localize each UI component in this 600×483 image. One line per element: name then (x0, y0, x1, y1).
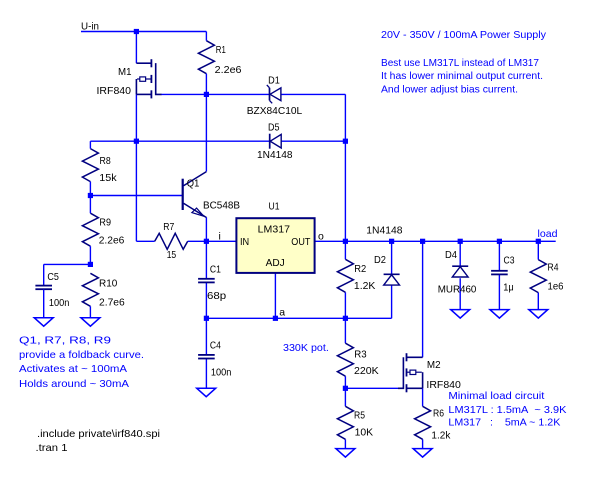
node R1 bottom / gate (204, 92, 209, 97)
wire R8 top horizontal (90, 140, 136, 142)
wire C1 top lead (205, 241, 207, 278)
wire D5 row right part (281, 140, 345, 142)
wire a row (206, 317, 391, 319)
wire R3 top lead (344, 318, 346, 343)
wire R8 top lead (89, 141, 91, 148)
svg-text:1.2k: 1.2k (431, 429, 451, 441)
svg-text:C5: C5 (47, 271, 59, 283)
svg-text:U1: U1 (269, 200, 280, 212)
svg-text:15k: 15k (99, 172, 117, 184)
wire D4 leads (459, 241, 461, 266)
wire C5 down (43, 264, 45, 285)
svg-text:Best use LM317L instead of LM3: Best use LM317L instead of LM317 (381, 57, 539, 69)
svg-text:.tran 1: .tran 1 (36, 442, 68, 454)
resistor R2 (337, 259, 353, 292)
transistor Q1 (182, 179, 184, 210)
diode D2 (384, 273, 400, 275)
ground C4 (197, 388, 216, 397)
wire R9 top lead (89, 196, 91, 214)
wire Q1 base row (90, 195, 182, 197)
svg-text:LM317: LM317 (258, 223, 290, 235)
svg-text:D5: D5 (268, 121, 280, 133)
capacitor C5 (35, 285, 52, 287)
wire C5 bottom lead (43, 290, 45, 318)
capacitor C3 (491, 270, 508, 272)
wire R5 top lead (344, 388, 346, 406)
svg-text:LM317L : 1.5mA ~ 3.9K: LM317L : 1.5mA ~ 3.9K (448, 404, 566, 416)
node M1 source / D5 / R8 (134, 139, 139, 144)
svg-text:IRF840: IRF840 (97, 85, 132, 97)
svg-text:.include private\irf840.spi: .include private\irf840.spi (37, 428, 160, 440)
node R8 R9 base junction (88, 193, 93, 198)
wire C3 leads (498, 241, 500, 270)
ground R6 (413, 449, 432, 458)
wire R1 top lead (205, 32, 207, 41)
svg-text:Q1: Q1 (187, 178, 200, 190)
svg-text:C4: C4 (210, 339, 221, 351)
svg-text:U-in: U-in (81, 20, 99, 32)
svg-text:100n: 100n (49, 297, 70, 309)
svg-text:1.2K: 1.2K (354, 280, 376, 292)
wire D2 bottom lead (391, 285, 393, 318)
resistor R9 (82, 213, 98, 246)
svg-text:Minimal load circuit: Minimal load circuit (448, 390, 544, 402)
svg-text:1μ: 1μ (503, 282, 514, 294)
svg-text:OUT: OUT (291, 236, 311, 248)
op-amp U1 LM317 regulator block (236, 218, 314, 273)
svg-text:220K: 220K (354, 365, 379, 377)
diode D4 (452, 265, 468, 267)
wire D1 to vertical (281, 93, 345, 95)
wire M2 source to R6 (422, 388, 424, 406)
svg-text:D2: D2 (374, 254, 386, 266)
node out-vertical junction (343, 239, 348, 244)
svg-text:LM317 : 5mA ~ 1.2K: LM317 : 5mA ~ 1.2K (448, 417, 560, 429)
wire R5 bottom lead (344, 439, 346, 448)
svg-text:Holds around ~ 30mA: Holds around ~ 30mA (19, 378, 129, 390)
wire R1 bottom lead (205, 74, 207, 95)
svg-text:R4: R4 (548, 262, 559, 274)
node R9 R10 C5 junction (88, 262, 93, 267)
mosfet M1 (136, 62, 150, 64)
node U-in junction (134, 29, 139, 34)
wire U-in top rail (81, 31, 206, 33)
svg-text:MUR460: MUR460 (438, 284, 477, 296)
svg-text:330K pot.: 330K pot. (283, 342, 329, 354)
svg-text:provide a foldback curve.: provide a foldback curve. (19, 349, 144, 361)
svg-text:C3: C3 (504, 254, 515, 266)
node R4 junction (536, 239, 541, 244)
svg-text:load: load (538, 228, 558, 240)
svg-text:R6: R6 (433, 407, 444, 419)
svg-text:R10: R10 (99, 278, 117, 290)
wire R8 bottom lead (89, 182, 91, 196)
wire C1 bottom lead (205, 282, 207, 318)
wire R9 bottom lead (89, 246, 91, 264)
node D2 junction (389, 239, 394, 244)
wire OUT row (315, 240, 556, 242)
node M2 drain junction (420, 239, 425, 244)
ground C3 (490, 310, 509, 319)
wire Q1 collector vertical (205, 94, 207, 171)
ground C5 (34, 318, 53, 327)
svg-text:And lower adjust bias current.: And lower adjust bias current. (381, 83, 518, 95)
svg-text:IN: IN (240, 236, 249, 248)
svg-text:Activates at ~ 100mA: Activates at ~ 100mA (19, 363, 127, 375)
svg-text:It has lower minimal output cu: It has lower minimal output current. (381, 70, 543, 82)
resistor R1 (198, 41, 214, 74)
resistor R5 (337, 406, 353, 439)
svg-text:R9: R9 (99, 217, 111, 229)
wire R10 bottom lead (89, 306, 91, 317)
node C1 C4 junction (204, 316, 209, 321)
svg-text:15: 15 (167, 249, 177, 261)
wire R7 to i node (188, 240, 237, 242)
svg-text:BZX84C10L: BZX84C10L (247, 105, 303, 117)
wire gate row to D1 (206, 93, 269, 95)
svg-text:ADJ: ADJ (266, 257, 285, 269)
node ADJ junction (273, 316, 278, 321)
wire C4 leads (205, 318, 207, 354)
node i junction (204, 239, 209, 244)
node C3 junction (497, 239, 502, 244)
svg-text:2.2e6: 2.2e6 (215, 64, 242, 76)
diode D5 (269, 134, 271, 149)
svg-text:20V - 350V / 100mA Power Suppl: 20V - 350V / 100mA Power Supply (381, 29, 547, 41)
svg-text:D4: D4 (445, 249, 457, 261)
wire M1 gate to R1 node (161, 93, 206, 95)
wire vertical D1-row down to out row (344, 94, 346, 241)
resistor R8 (82, 149, 98, 182)
wire R4 top lead (537, 241, 539, 259)
resistor R10 (82, 273, 98, 306)
wire R6 bottom lead (422, 439, 424, 448)
svg-text:M1: M1 (118, 66, 132, 78)
wire M1 source down (135, 94, 137, 241)
capacitor C4 (198, 354, 215, 356)
node R3 R5 M2-gate junction (343, 386, 348, 391)
svg-text:1e6: 1e6 (548, 281, 564, 293)
node R2 R3 junction (343, 316, 348, 321)
wire M2 drain vertical (422, 241, 424, 357)
ground D4 (451, 310, 470, 319)
wire C5 branch horizontal (44, 263, 91, 265)
capacitor C1 (198, 278, 215, 280)
svg-text:R7: R7 (163, 221, 174, 233)
mosfet M2 (407, 356, 423, 358)
svg-text:R1: R1 (216, 44, 226, 56)
resistor R7 (155, 233, 188, 249)
diode D1 zener (269, 88, 271, 101)
svg-text:2.7e6: 2.7e6 (99, 296, 125, 308)
svg-text:BC548B: BC548B (203, 200, 240, 212)
wire R3 bottom lead (344, 376, 346, 388)
wire D2 top lead (391, 241, 393, 274)
wire M2 gate row (345, 387, 398, 389)
node D5 row at vertical (343, 139, 348, 144)
svg-text:R8: R8 (100, 155, 111, 167)
resistor R6 (415, 406, 431, 439)
svg-text:C1: C1 (210, 263, 221, 275)
svg-text:o: o (318, 230, 324, 242)
wire R4 bottom lead (537, 293, 539, 310)
svg-text:Q1, R7, R8, R9: Q1, R7, R8, R9 (19, 334, 111, 346)
wire R2 top lead (344, 241, 346, 259)
svg-text:2.2e6: 2.2e6 (99, 235, 125, 247)
ground R10 (81, 318, 100, 327)
svg-text:a: a (279, 306, 285, 318)
resistor R4 (530, 260, 546, 293)
svg-text:1N4148: 1N4148 (366, 224, 402, 236)
resistor R3 (337, 343, 353, 376)
wire ADJ pin (274, 273, 276, 318)
ground R5 (336, 449, 355, 458)
wire Q1 emitter vertical (205, 217, 207, 241)
wire R2 bottom lead (344, 292, 346, 318)
wire D5 row left part (136, 140, 269, 142)
wire M1 drain from rail (135, 32, 137, 64)
svg-text:R5: R5 (354, 409, 365, 421)
svg-text:D1: D1 (268, 75, 280, 87)
svg-text:10K: 10K (355, 426, 374, 438)
node D4 junction (458, 239, 463, 244)
ground R4 (529, 310, 548, 319)
svg-text:M2: M2 (427, 359, 441, 371)
wire M1 source corner to R7 (136, 240, 154, 242)
svg-text:i: i (219, 230, 221, 242)
svg-text:R2: R2 (354, 263, 366, 275)
svg-text:1N4148: 1N4148 (257, 149, 293, 161)
svg-text:100n: 100n (211, 367, 232, 379)
svg-text:R3: R3 (354, 349, 367, 361)
svg-text:68p: 68p (207, 290, 226, 302)
